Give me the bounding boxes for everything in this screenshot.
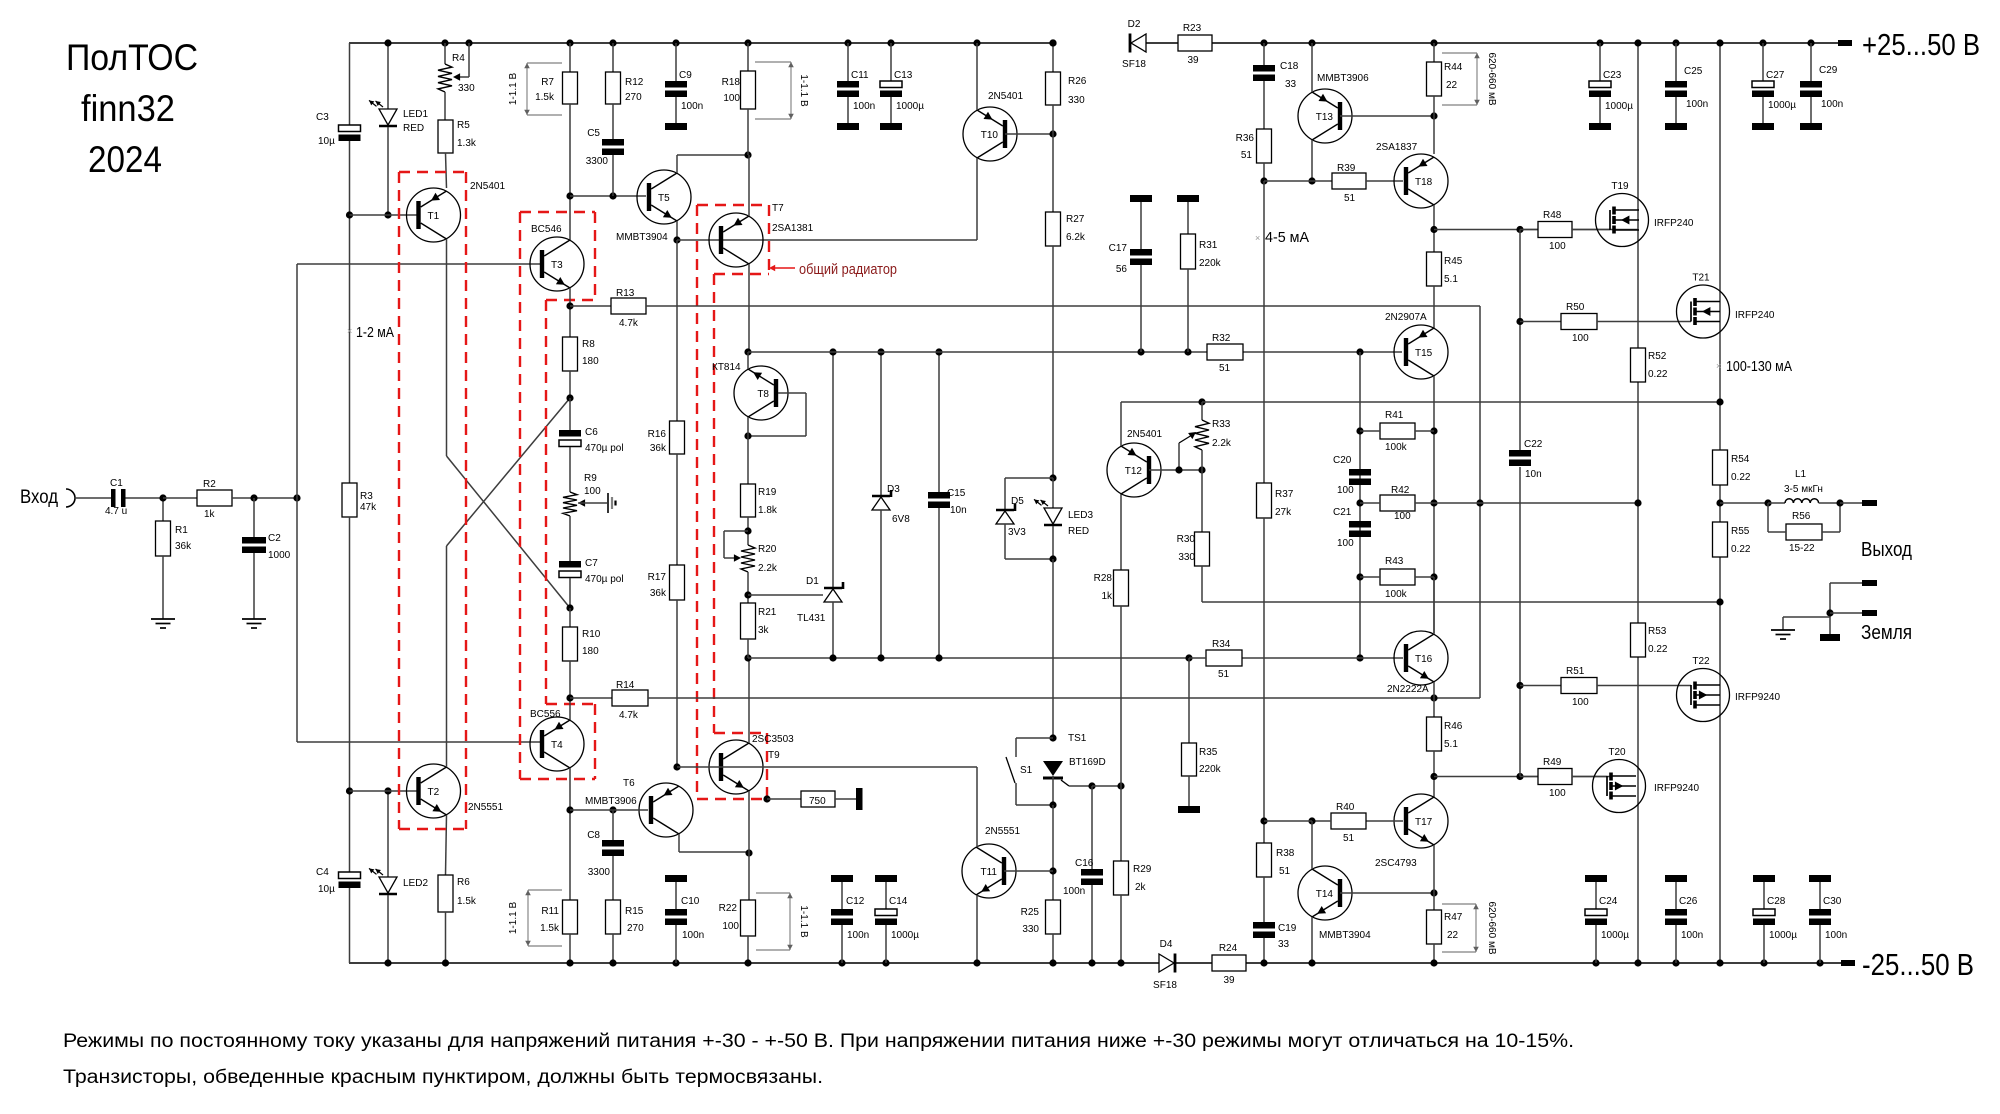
svg-text:R47: R47 (1444, 912, 1463, 923)
svg-text:R24: R24 (1219, 943, 1238, 954)
svg-text:T12: T12 (1125, 466, 1143, 477)
svg-text:620-660 мВ: 620-660 мВ (1486, 901, 1497, 954)
capacitor C28 (1753, 875, 1797, 967)
wire R42 row to output (1434, 502, 1638, 504)
ground label Земля (1861, 622, 1912, 644)
wire T9 base row to T11 collector (677, 766, 977, 768)
svg-text:R9: R9 (584, 473, 597, 484)
bracket 620-660 mV R47 (1442, 901, 1497, 954)
+25..50V terminal (1838, 27, 1980, 62)
wire T12 base row (1149, 450, 1206, 474)
svg-text:5.1: 5.1 (1444, 274, 1458, 285)
svg-text:1000: 1000 (268, 550, 291, 561)
svg-text:R22: R22 (719, 903, 738, 914)
svg-text:39: 39 (1187, 55, 1199, 66)
svg-text:TS1: TS1 (1068, 733, 1087, 744)
LED LED2 (369, 791, 428, 963)
wire T8 top line to T15 base (748, 351, 1402, 353)
svg-text:КТ814: КТ814 (712, 362, 741, 373)
svg-text:180: 180 (582, 646, 599, 657)
svg-text:L1: L1 (1795, 469, 1807, 480)
svg-text:S1: S1 (1020, 765, 1033, 776)
capacitor C16 (1063, 782, 1103, 966)
transistor T19 IRFP240 (1596, 181, 1649, 247)
resistor R12 (606, 39, 644, 139)
svg-text:R52: R52 (1648, 351, 1667, 362)
capacitor C14 (875, 875, 919, 967)
node T5 base row (566, 192, 646, 199)
resistor R2 (163, 479, 297, 520)
wire T11 emitter (973, 895, 980, 967)
LED LED3 (1034, 478, 1093, 563)
svg-text:51: 51 (1241, 150, 1253, 161)
resistor R15 (606, 900, 645, 967)
svg-text:3300: 3300 (588, 867, 611, 878)
svg-text:C7: C7 (585, 558, 598, 569)
svg-text:C12: C12 (846, 896, 865, 907)
R4 wiper to rail (453, 39, 473, 80)
resistor R26 (1046, 39, 1087, 134)
svg-text:4.7k: 4.7k (619, 318, 639, 329)
svg-text:47k: 47k (360, 502, 377, 513)
svg-text:R17: R17 (648, 572, 667, 583)
capacitor C12 (831, 875, 869, 967)
svg-text:330: 330 (1022, 924, 1039, 935)
capacitor C21 (1333, 507, 1371, 549)
svg-text:R53: R53 (1648, 626, 1667, 637)
svg-text:2N2222A: 2N2222A (1387, 684, 1429, 695)
svg-text:C25: C25 (1684, 66, 1703, 77)
svg-text:100: 100 (1549, 241, 1566, 252)
svg-text:T20: T20 (1608, 747, 1626, 758)
resistor R40 (1308, 802, 1366, 844)
resistor R5 (438, 92, 477, 188)
wire T17 base from R40 (1366, 820, 1403, 822)
bracket 1-1.1V R11 (508, 890, 562, 946)
resistor R17 (648, 454, 685, 771)
svg-text:2.2k: 2.2k (758, 563, 778, 574)
node feedback tap (293, 494, 300, 501)
resistor R21 (741, 603, 777, 658)
bracket 1-1.1V R18 (755, 62, 809, 119)
svg-text:ПолТОС: ПолТОС (66, 37, 198, 78)
svg-text:3-5 мкГн: 3-5 мкГн (1784, 484, 1823, 495)
potentiometer R9 (563, 473, 601, 561)
capacitor C3 (316, 43, 361, 215)
resistor R42 (1360, 485, 1434, 522)
wire feedback column x=1480 (1430, 306, 1483, 702)
ground symbol (1771, 630, 1795, 639)
svg-text:330: 330 (458, 83, 475, 94)
capacitor C11 (837, 39, 875, 130)
svg-text:2N5401: 2N5401 (1127, 429, 1162, 440)
resistor R30 (1177, 470, 1210, 566)
R20 wiper (724, 531, 748, 562)
capacitor C30 (1809, 875, 1847, 967)
svg-text:R37: R37 (1275, 489, 1294, 500)
svg-text:LED3: LED3 (1068, 510, 1093, 521)
wire output row to L1 (1720, 499, 1772, 506)
svg-text:R55: R55 (1731, 526, 1750, 537)
transistor T16 2N2222A (1394, 631, 1448, 685)
resistor R24 (1212, 943, 1246, 986)
capacitor C15 (928, 348, 967, 661)
svg-text:C23: C23 (1603, 70, 1622, 81)
svg-text:D3: D3 (887, 484, 900, 495)
thermal link box T7-T9 (697, 205, 769, 799)
svg-text:3V3: 3V3 (1008, 527, 1026, 538)
svg-text:2024: 2024 (88, 139, 162, 180)
svg-text:R27: R27 (1066, 214, 1085, 225)
wire T5 emitter to T7 base (673, 221, 680, 244)
bracket 1-1.1V R7 (508, 63, 562, 115)
svg-text:R35: R35 (1199, 747, 1218, 758)
transistor T17 2SC4793 (1394, 794, 1448, 848)
resistor R48 (1520, 210, 1610, 252)
svg-text:T5: T5 (658, 193, 670, 204)
callout общий радиатор (769, 261, 897, 278)
svg-text:D2: D2 (1128, 19, 1141, 30)
wire R38 top row (1264, 820, 1312, 822)
svg-text:T8: T8 (757, 389, 769, 400)
diode D4 SF18 (1153, 939, 1177, 991)
wire driver top row to T19 source (1434, 226, 1638, 233)
svg-text:R33: R33 (1212, 419, 1231, 430)
svg-text:R49: R49 (1543, 757, 1562, 768)
resistor R54 (1713, 450, 1751, 485)
svg-text:-25...50 В: -25...50 В (1862, 947, 1974, 982)
svg-text:470µ pol: 470µ pol (585, 574, 624, 585)
svg-text:D5: D5 (1011, 496, 1024, 507)
svg-text:100: 100 (1549, 788, 1566, 799)
transistor T9 2SC3503 (709, 740, 763, 794)
svg-text:C19: C19 (1278, 923, 1297, 934)
svg-text:C9: C9 (679, 70, 692, 81)
svg-text:IRFP9240: IRFP9240 (1735, 692, 1780, 703)
svg-text:R3: R3 (360, 491, 373, 502)
transistor T3 BC546 (530, 237, 584, 291)
wire T8 base loop (744, 393, 806, 440)
svg-text:TL431: TL431 (797, 613, 826, 624)
capacitor C7 470u pol (559, 558, 624, 612)
svg-text:100k: 100k (1385, 442, 1408, 453)
svg-text:RED: RED (1068, 526, 1089, 537)
svg-text:C1: C1 (110, 478, 123, 489)
capacitor C5 (586, 128, 624, 196)
svg-text:MMBT3906: MMBT3906 (1317, 73, 1369, 84)
node rail LED2 bottom (384, 959, 391, 966)
svg-text:R1: R1 (175, 525, 188, 536)
svg-text:R8: R8 (582, 339, 595, 350)
svg-text:51: 51 (1343, 833, 1355, 844)
svg-text:R21: R21 (758, 607, 777, 618)
wire T19-T20 column (1634, 39, 1641, 966)
svg-text:4-5 мА: 4-5 мА (1265, 229, 1309, 246)
svg-text:C10: C10 (681, 896, 700, 907)
node T2 base (346, 787, 417, 794)
potentiometer R33 (1195, 402, 1232, 450)
resistor R34 (1185, 639, 1242, 680)
svg-text:15-22: 15-22 (1789, 543, 1815, 554)
svg-text:100n: 100n (1681, 930, 1703, 941)
wire T14 emitter (1308, 917, 1315, 967)
svg-text:R14: R14 (616, 680, 635, 691)
ground below C2 (242, 619, 266, 628)
svg-text:R6: R6 (457, 877, 470, 888)
svg-text:R42: R42 (1391, 485, 1410, 496)
wire T6 collector to T9 emitter node (679, 834, 753, 857)
resistor R51 (1520, 666, 1691, 708)
svg-text:T17: T17 (1415, 817, 1433, 828)
svg-text:R11: R11 (541, 906, 559, 917)
svg-text:R45: R45 (1444, 256, 1463, 267)
svg-text:6V8: 6V8 (892, 514, 910, 525)
resistor R13 (570, 288, 646, 329)
svg-text:1.5k: 1.5k (540, 923, 560, 934)
svg-text:C17: C17 (1109, 243, 1128, 254)
zener D3 6V8 (872, 348, 910, 661)
svg-text:10µ: 10µ (318, 136, 335, 147)
svg-text:2N5551: 2N5551 (468, 802, 503, 813)
svg-text:1000µ: 1000µ (1605, 101, 1633, 112)
capacitor C22 (1509, 439, 1543, 480)
svg-text:2SC4793: 2SC4793 (1375, 858, 1417, 869)
svg-text:220k: 220k (1199, 764, 1222, 775)
wire gate bus column with C22 (1516, 230, 1523, 777)
svg-text:R12: R12 (625, 77, 644, 88)
svg-text:4.7 u: 4.7 u (105, 506, 127, 517)
ground below R1 (151, 619, 175, 628)
capacitor C10 (665, 875, 704, 967)
svg-text:0.22: 0.22 (1731, 544, 1751, 555)
svg-text:T14: T14 (1316, 889, 1334, 900)
capacitor C9 (665, 39, 703, 130)
svg-text:MMBT3904: MMBT3904 (616, 232, 668, 243)
svg-text:Выход: Выход (1861, 539, 1912, 561)
wire T11 collector to T9 base row (976, 767, 978, 847)
svg-text:R30: R30 (1177, 534, 1196, 545)
note line 2 (63, 1067, 823, 1088)
resistor R50 (1520, 302, 1691, 344)
svg-text:6.2k: 6.2k (1066, 232, 1086, 243)
wire T4 base line (297, 741, 540, 743)
svg-text:C20: C20 (1333, 455, 1352, 466)
resistor R52 (1631, 348, 1668, 382)
wire -V bottom rail (349, 962, 1841, 964)
resistor R53 (1631, 623, 1668, 657)
svg-text:R34: R34 (1212, 639, 1231, 650)
svg-text:620-660 мВ: 620-660 мВ (1486, 52, 1497, 105)
wire T6 base from T4 (570, 809, 648, 811)
svg-text:R44: R44 (1444, 62, 1463, 73)
svg-text:BC556: BC556 (530, 709, 561, 720)
svg-text:2N5401: 2N5401 (988, 91, 1023, 102)
resistor R6 (438, 815, 477, 967)
wire T14 collector (1311, 821, 1313, 869)
wire T17 emitter to R47 (1433, 845, 1435, 910)
svg-text:33: 33 (1278, 939, 1290, 950)
transistor T14 MMBT3904 (1298, 866, 1352, 920)
wire T12 emitter to y402 (1121, 398, 1206, 446)
capacitor C13 (880, 39, 924, 130)
svg-text:T13: T13 (1316, 112, 1334, 123)
svg-text:2k: 2k (1135, 882, 1147, 893)
wire T11 base (1004, 870, 1053, 872)
svg-text:Вход: Вход (20, 487, 58, 508)
svg-text:R41: R41 (1385, 410, 1404, 421)
wire T13 collector down (1308, 140, 1315, 185)
wire T16 emitter to R46 (1433, 682, 1435, 717)
capacitor C26 (1665, 875, 1703, 967)
zener D5 3V3 (996, 474, 1057, 559)
wire T16 collector (1433, 577, 1435, 634)
wire T8 emitter down (747, 417, 749, 484)
svg-text:MMBT3904: MMBT3904 (1319, 930, 1371, 941)
svg-text:1000µ: 1000µ (891, 930, 919, 941)
svg-text:C5: C5 (587, 128, 600, 139)
resistor R16 (648, 240, 685, 454)
svg-text:100: 100 (584, 486, 601, 497)
svg-text:R2: R2 (203, 479, 216, 490)
svg-text:R46: R46 (1444, 721, 1463, 732)
svg-text:270: 270 (627, 923, 644, 934)
resistor R47 (1427, 910, 1463, 967)
bracket 620-660 mV R44 (1442, 52, 1497, 105)
svg-text:100n: 100n (682, 930, 704, 941)
switch S1 (1006, 738, 1057, 809)
transistor T6 MMBT3906 (639, 783, 693, 837)
svg-text:1-2 мА: 1-2 мА (356, 324, 394, 341)
capacitor C17 (1109, 195, 1152, 352)
svg-text:T9: T9 (768, 750, 780, 761)
svg-text:T21: T21 (1692, 273, 1710, 284)
svg-text:C28: C28 (1767, 896, 1786, 907)
svg-text:LED2: LED2 (403, 878, 428, 889)
svg-text:R38: R38 (1276, 848, 1295, 859)
svg-text:IRFP240: IRFP240 (1735, 310, 1775, 321)
node R14 row (566, 661, 573, 720)
svg-text:100-130 мА: 100-130 мА (1726, 358, 1792, 375)
svg-text:D4: D4 (1160, 939, 1173, 950)
svg-text:100: 100 (1337, 538, 1354, 549)
wire R30 to y602 line (1202, 566, 1720, 602)
svg-text:R15: R15 (625, 906, 644, 917)
svg-text:C11: C11 (851, 70, 869, 81)
svg-text:33: 33 (1285, 79, 1297, 90)
-25..50V terminal (1841, 947, 1974, 982)
svg-text:×: × (1255, 233, 1260, 243)
resistor R31 (1177, 195, 1222, 352)
capacitor C1 (105, 478, 163, 517)
node T15 base (1356, 348, 1363, 355)
resistor R7 (535, 39, 577, 240)
resistor R46 (1427, 717, 1463, 797)
svg-text:BC546: BC546 (531, 224, 562, 235)
svg-text:R28: R28 (1094, 573, 1113, 584)
thyristor TS1 BT169D (1043, 733, 1106, 805)
svg-text:330: 330 (1178, 552, 1195, 563)
svg-text:R54: R54 (1731, 454, 1750, 465)
resistor R1 (156, 498, 193, 619)
capacitor C23 (1589, 39, 1633, 130)
svg-text:100: 100 (722, 921, 739, 932)
svg-text:10n: 10n (950, 505, 967, 516)
svg-text:R7: R7 (541, 77, 554, 88)
wire T7 emitter up (748, 155, 750, 216)
resistor R39 (1332, 163, 1403, 204)
svg-text:51: 51 (1279, 866, 1291, 877)
node R20 top (744, 517, 751, 545)
svg-text:BT169D: BT169D (1069, 757, 1106, 768)
svg-text:R51: R51 (1566, 666, 1585, 677)
transistor T13 MMBT3906 (1298, 89, 1352, 143)
svg-text:1000µ: 1000µ (896, 101, 924, 112)
wire LED3 node down to thyristor (1052, 559, 1054, 738)
note line 1 (63, 1031, 1574, 1052)
svg-text:C2: C2 (268, 533, 281, 544)
wire T1 collector cross to R10 (447, 239, 571, 608)
wire T10 emitter to rail (973, 39, 980, 110)
svg-text:100n: 100n (1825, 930, 1847, 941)
svg-text:1-1.1 В: 1-1.1 В (508, 902, 519, 935)
svg-text:R19: R19 (758, 487, 777, 498)
R9 wiper mini ground (578, 493, 616, 513)
resistor R19 (741, 484, 778, 517)
svg-text:100n: 100n (1686, 99, 1708, 110)
svg-text:T19: T19 (1611, 181, 1629, 192)
svg-text:C6: C6 (585, 427, 598, 438)
svg-text:1.5k: 1.5k (457, 896, 477, 907)
svg-text:36k: 36k (175, 541, 192, 552)
wire T5 collector to R18 node (677, 151, 752, 173)
resistor R38 (1257, 518, 1295, 877)
svg-text:C14: C14 (889, 896, 908, 907)
svg-text:IRFP240: IRFP240 (1654, 218, 1694, 229)
svg-text:R5: R5 (457, 120, 470, 131)
svg-text:36k: 36k (650, 443, 667, 454)
svg-text:330: 330 (1068, 95, 1085, 106)
node T18 collector (1430, 205, 1437, 252)
svg-text:C8: C8 (587, 830, 600, 841)
svg-text:C13: C13 (894, 70, 913, 81)
wire R36-R39 row (1264, 180, 1332, 182)
svg-text:100n: 100n (1821, 99, 1843, 110)
svg-text:R4: R4 (452, 53, 465, 64)
svg-text:C15: C15 (947, 488, 966, 499)
node R21 top / TL431 ref (744, 572, 823, 603)
transistor T10 2N5401 (963, 107, 1017, 161)
svg-text:RED: RED (403, 123, 424, 134)
wire R14 row to T16 emitter node (648, 697, 1434, 699)
svg-text:T11: T11 (981, 867, 998, 878)
thermal resistor 750 (763, 788, 862, 810)
svg-text:R36: R36 (1236, 133, 1255, 144)
potentiometer R20 (741, 544, 778, 574)
svg-text:2.2k: 2.2k (1212, 438, 1232, 449)
svg-text:1-1.1 В: 1-1.1 В (798, 905, 809, 938)
transistor T12 2N5401 (1107, 443, 1161, 497)
svg-text:0.22: 0.22 (1648, 644, 1668, 655)
svg-text:T7: T7 (772, 203, 784, 214)
svg-text:IRFP9240: IRFP9240 (1654, 783, 1699, 794)
svg-text:R13: R13 (616, 288, 635, 299)
resistor R45 (1427, 252, 1463, 328)
wire +V top rail (349, 42, 1838, 44)
transistor T11 2N5551 (962, 844, 1016, 898)
thermal link box T3-T4 (520, 212, 595, 779)
svg-text:750: 750 (809, 796, 826, 807)
svg-text:T2: T2 (428, 787, 440, 798)
